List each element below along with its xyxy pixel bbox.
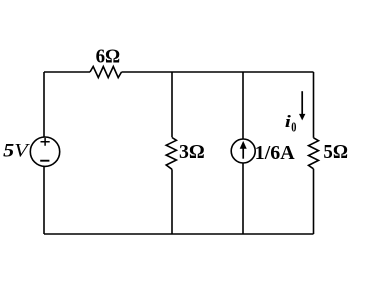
svg-text:5Ω: 5Ω xyxy=(323,141,348,163)
svg-text:6Ω: 6Ω xyxy=(96,46,121,68)
wire branch 5ohm lower xyxy=(313,169,315,234)
svg-text:3Ω: 3Ω xyxy=(179,141,205,163)
resistor R 6ohm zigzag xyxy=(90,67,122,78)
voltage source V1 circle xyxy=(30,137,59,166)
wire branch current-source upper xyxy=(242,72,244,139)
wire branch current-source lower xyxy=(242,163,244,234)
current source I1 circle xyxy=(231,139,255,163)
resistor R 3ohm zigzag xyxy=(166,138,176,170)
voltage source minus sign xyxy=(40,160,49,162)
wire left vertical below source xyxy=(43,166,45,234)
wire branch 3ohm lower xyxy=(171,169,173,234)
wire bottom horizontal xyxy=(44,233,314,235)
svg-text:1/6A: 1/6A xyxy=(255,142,295,164)
svg-text:5V: 5V xyxy=(3,140,30,161)
current source arrow shaft xyxy=(242,148,244,159)
current source arrowhead xyxy=(240,141,247,149)
wire branch 5ohm upper (right side) xyxy=(313,72,315,138)
wire branch 3ohm upper xyxy=(171,72,173,137)
svg-text:0: 0 xyxy=(291,119,296,135)
voltage source plus sign xyxy=(41,138,50,146)
current i0 arrow shaft xyxy=(301,91,303,114)
wire top horizontal segment to right corner xyxy=(122,71,314,73)
wire left vertical above source xyxy=(43,72,45,137)
resistor R 5ohm zigzag xyxy=(309,138,319,169)
wire top-left horizontal segment xyxy=(44,71,90,73)
current i0 arrowhead xyxy=(299,114,305,121)
